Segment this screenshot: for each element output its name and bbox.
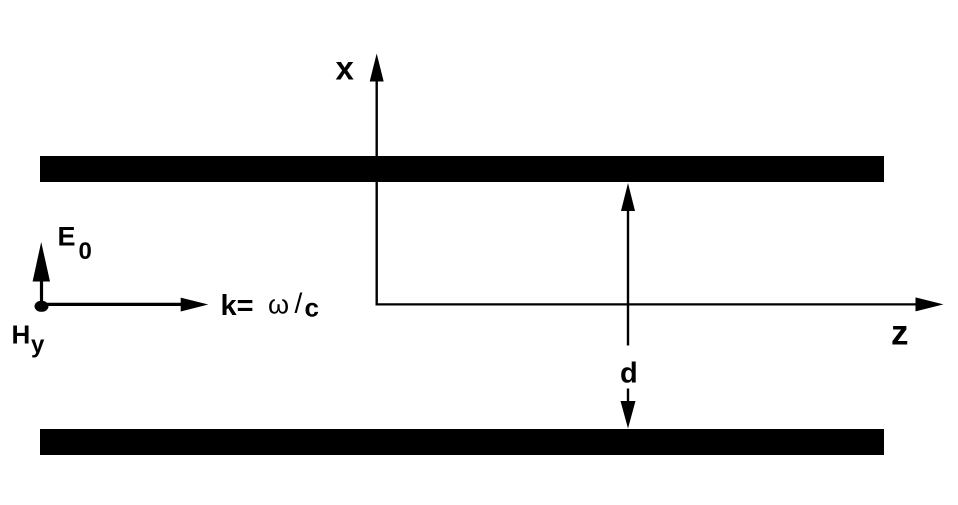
- svg-text:ω: ω: [268, 290, 289, 320]
- svg-text:E: E: [58, 222, 76, 252]
- svg-text:x: x: [336, 50, 355, 87]
- svg-text:c: c: [305, 293, 319, 323]
- svg-text:H: H: [12, 320, 31, 350]
- svg-text:d: d: [620, 358, 638, 390]
- svg-text:z: z: [891, 314, 909, 353]
- svg-text:/: /: [295, 288, 303, 319]
- svg-text:y: y: [31, 332, 45, 359]
- svg-text:k=: k=: [221, 290, 254, 322]
- svg-text:0: 0: [79, 238, 92, 265]
